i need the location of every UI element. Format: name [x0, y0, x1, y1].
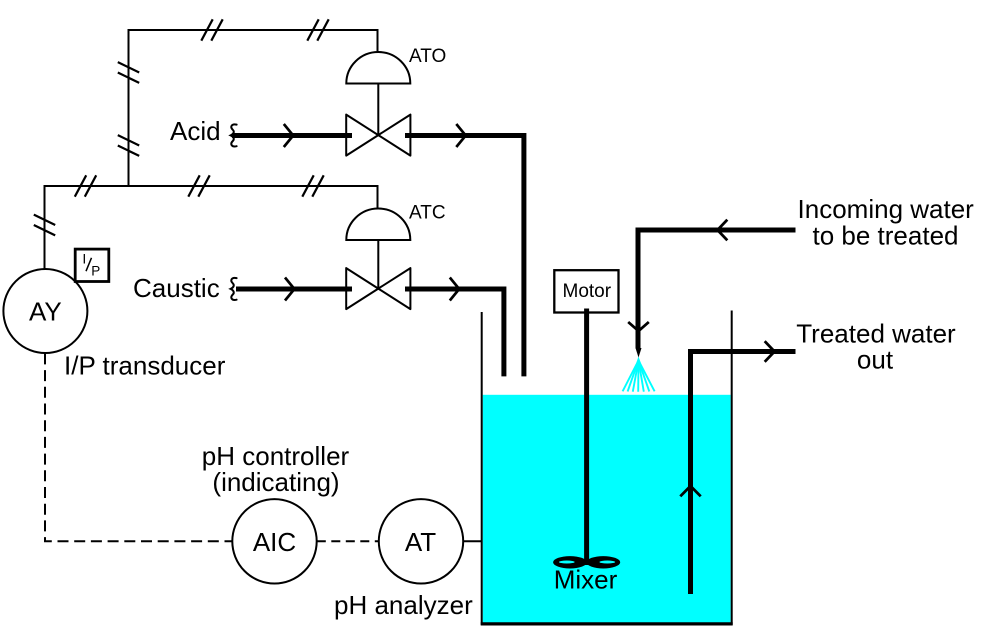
svg-text:pH analyzer: pH analyzer	[334, 590, 473, 620]
tank water (cyan)	[483, 395, 731, 623]
svg-text:ATC: ATC	[409, 202, 446, 223]
instrument AT (pH analyzer bubble)	[379, 499, 463, 583]
svg-text:ATO: ATO	[409, 46, 446, 67]
flow arrow acid inlet	[284, 124, 293, 147]
mixer propeller right blade	[586, 556, 620, 568]
pipe acid inlet (thick)	[232, 133, 352, 138]
mixer propeller left blade	[553, 556, 587, 568]
wire pneumatic signal AY to ATC valve (vertical riser + horizontal run)	[45, 186, 378, 270]
instrument AIC (pH controller bubble)	[232, 499, 316, 583]
actuator diaphragm ATO (dome)	[346, 52, 410, 83]
tank left wall	[481, 312, 483, 625]
flow arrow acid outlet	[456, 124, 465, 147]
wire pneumatic branch to ATO valve (tee at x=128.5 up and across)	[129, 30, 378, 186]
svg-text:Motor: Motor	[563, 281, 612, 302]
hash marks vertical x=44.5 (AY riser)	[34, 215, 55, 236]
svg-text:I: I	[82, 250, 86, 266]
pipe incoming water (thick, right to corner then down)	[638, 230, 796, 349]
pipe caustic inlet (thick)	[236, 287, 352, 292]
pipe caustic outlet to tank (thick, turns down)	[405, 289, 504, 376]
valve V2 body (caustic, ATC)	[346, 268, 410, 309]
flow arrow caustic outlet	[450, 278, 459, 301]
wire electrical dashed AY to AIC	[45, 353, 232, 541]
hash marks vertical x=128.5 pair 1	[118, 62, 139, 83]
pipe-break squiggle (acid)	[231, 124, 237, 146]
tank right wall	[731, 311, 733, 625]
mixer propeller right slit	[599, 561, 615, 564]
hash marks vertical x=128.5 pair 2	[118, 135, 139, 156]
tank bottom	[481, 622, 733, 625]
flow arrow incoming (left)	[718, 220, 728, 241]
spray apex	[634, 357, 644, 371]
svg-text:Caustic: Caustic	[133, 273, 220, 303]
motor box	[554, 270, 618, 312]
pipe acid outlet to tank (thick, turns down)	[405, 136, 524, 377]
spray (incoming water) rays	[623, 361, 655, 392]
valve stem ATC	[377, 240, 379, 289]
hash marks pneumatic line y=186 pair 1	[75, 175, 96, 196]
svg-text:Acid: Acid	[170, 116, 221, 146]
pipe treated water out (thick, up from tank then right)	[691, 352, 796, 595]
pipe-break squiggle (caustic)	[231, 278, 237, 300]
svg-text:Mixer: Mixer	[554, 565, 618, 595]
I/P function box	[75, 249, 109, 281]
actuator diaphragm ATC (dome)	[346, 209, 410, 240]
valve V1 body (acid, ATO)	[346, 115, 410, 156]
svg-text:P: P	[91, 263, 100, 278]
svg-text:AIC: AIC	[253, 527, 296, 557]
flow arrow treated (up)	[680, 486, 700, 496]
wire AT to tank probe	[463, 540, 482, 542]
svg-text:AT: AT	[405, 527, 436, 557]
wire electrical dashed AIC to AT	[317, 540, 379, 542]
svg-text:to be treated: to be treated	[813, 220, 959, 250]
flow arrow treated (right)	[765, 341, 775, 362]
mixer propeller left slit	[559, 561, 575, 564]
svg-text:(indicating): (indicating)	[212, 467, 339, 497]
instrument AY (I/P transducer bubble)	[3, 269, 87, 353]
hash marks pneumatic line y=30 pair 1	[201, 19, 222, 40]
svg-text:I/P transducer: I/P transducer	[64, 350, 226, 380]
flow arrow incoming (down)	[628, 322, 649, 331]
svg-text:out: out	[857, 344, 894, 374]
hash marks pneumatic line y=186 pair 2	[188, 175, 209, 196]
flow arrow caustic inlet	[285, 278, 294, 301]
hash marks pneumatic line y=30 pair 2	[307, 19, 328, 40]
hash marks pneumatic line y=186 pair 3	[302, 175, 323, 196]
svg-text:AY: AY	[29, 296, 62, 326]
mixer shaft	[584, 309, 589, 566]
pipe incoming nozzle tip	[636, 348, 642, 358]
valve stem ATO	[377, 84, 379, 136]
I/P box text	[82, 250, 100, 278]
